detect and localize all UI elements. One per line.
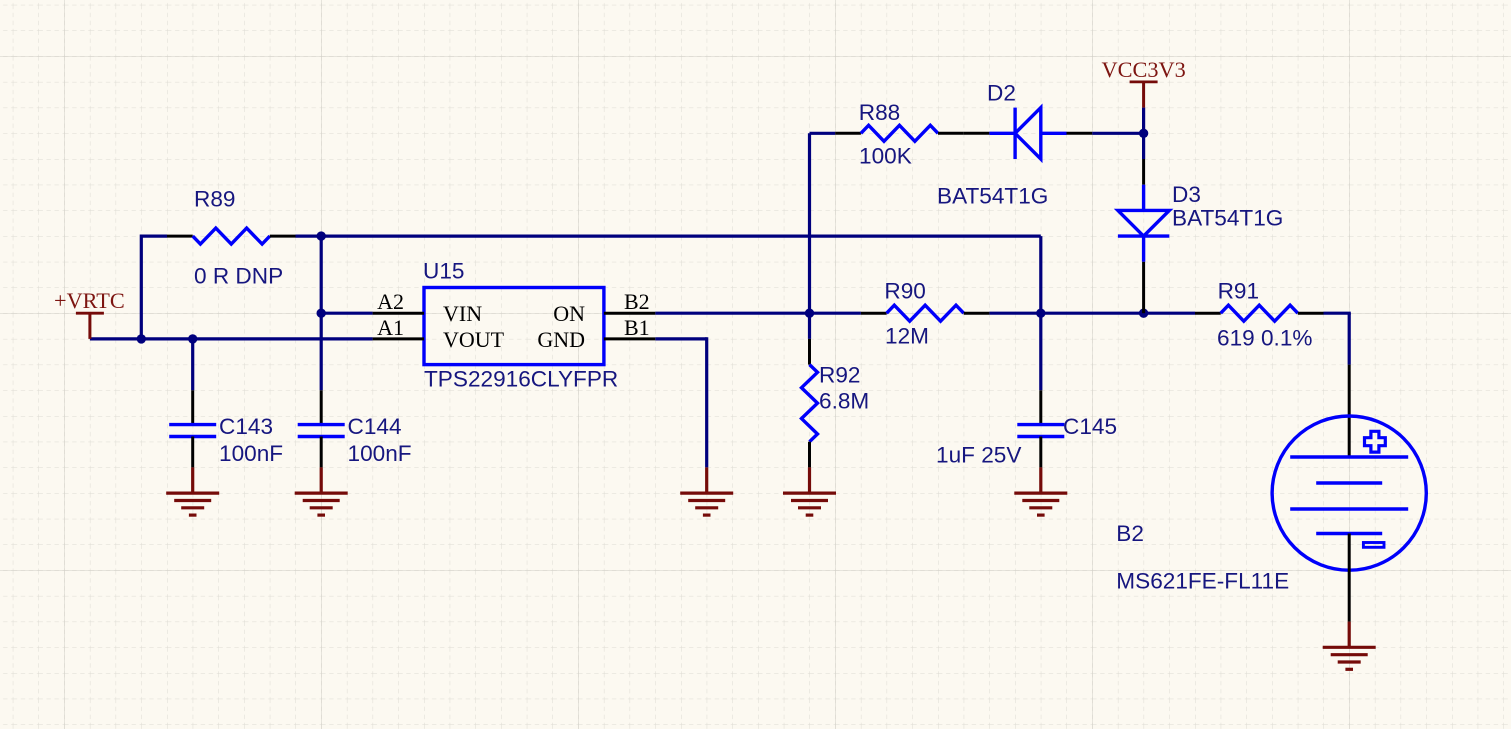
svg-text:VCC3V3: VCC3V3 [1101,57,1185,82]
svg-text:+VRTC: +VRTC [54,288,125,313]
diode D2 [964,108,1092,159]
power port +VRTC [76,313,104,339]
svg-text:R89: R89 [194,186,235,211]
junction A2/col10 [317,309,326,318]
svg-text:TPS22916CLYFPR: TPS22916CLYFPR [424,366,618,391]
svg-text:BAT54T1G: BAT54T1G [937,184,1048,209]
svg-text:VOUT: VOUT [443,327,505,352]
pin A1 (VOUT) [373,337,424,340]
svg-text:100K: 100K [859,144,912,169]
svg-text:R90: R90 [884,278,925,303]
junction R89 right [317,231,326,240]
resistor R90 [861,305,990,321]
wire row7 R89 right to junction [296,235,322,238]
resistor R88 [835,125,964,141]
svg-text:R91: R91 [1218,278,1259,303]
wire B1 out [655,337,706,340]
ground (C145) [1014,467,1067,515]
svg-text:U15: U15 [423,259,464,284]
wire R91 to corner [1324,312,1351,315]
svg-text:B2: B2 [1116,521,1144,546]
pin A2 (VIN) [373,312,424,315]
capacitor C144 [298,390,345,467]
svg-text:A2: A2 [377,289,404,314]
svg-text:D2: D2 [987,80,1016,105]
pin B2 (ON) [604,312,655,315]
wire B1 down to ground [705,337,708,467]
svg-text:D3: D3 [1172,182,1201,207]
svg-text:100nF: 100nF [219,441,283,466]
resistor R89 [167,228,296,244]
svg-text:VIN: VIN [443,301,482,326]
ground (C143) [166,467,219,515]
svg-text:6.8M: 6.8M [819,388,869,413]
capacitor C143 [169,390,216,467]
wire R90 right to R91 [989,312,1195,315]
svg-text:B1: B1 [624,315,650,340]
wire row7 left of R89 [141,235,167,238]
junction R92/col29 [805,309,814,318]
wire col29 vertical R88 to row10 [808,133,811,313]
ground (B1/GND pin) [680,467,733,515]
wire A2 stub [321,312,372,315]
capacitor C145 [1017,390,1064,467]
resistor R91 [1195,305,1324,321]
wire C143 drop [191,339,194,390]
junction D3/R91 [1139,309,1148,318]
svg-text:R88: R88 [859,100,900,125]
diode D3 [1118,159,1169,313]
wire VCC junction down [1142,108,1145,159]
svg-text:12M: 12M [885,324,929,349]
wire R92 feed [808,313,811,339]
wire battery corner down [1348,313,1351,364]
resistor R92 [802,339,818,468]
svg-text:A1: A1 [377,315,404,340]
svg-text:C143: C143 [219,414,273,439]
wire D2 to VCC junction [1092,132,1143,135]
wire C145 drop [1039,313,1042,390]
IC U15 TPS22916CLYFPR box [424,288,604,365]
battery B2 MS621FE [1272,365,1426,622]
ground (C144) [295,467,348,515]
svg-text:GND: GND [537,327,585,352]
junction row11/col3 [137,334,146,343]
svg-text:ON: ON [553,301,585,326]
junction C145/col38 [1036,309,1045,318]
wire col3 vertical [140,235,143,339]
wire row7 long run col10 to col38 [321,235,1041,238]
svg-text:100nF: 100nF [348,441,412,466]
svg-text:1uF 25V: 1uF 25V [936,443,1021,468]
svg-text:0 R DNP: 0 R DNP [194,264,283,289]
wire B2 to R90 [655,312,861,315]
svg-text:B2: B2 [624,289,650,314]
wire col10 vertical [320,235,323,391]
junction C143 tap [188,334,197,343]
svg-text:C145: C145 [1063,414,1117,439]
pin B1 (GND) [604,337,655,340]
wire row11 VRTC to A1 [90,337,373,340]
wire col38 down to row10 [1039,236,1042,313]
wire row3 col29 to R88 [810,132,836,135]
svg-text:BAT54T1G: BAT54T1G [1172,205,1283,230]
svg-text:619 0.1%: 619 0.1% [1217,325,1312,350]
power port VCC3V3 [1130,82,1158,108]
ground (R92) [783,467,836,515]
junction D2/VCC3V3 [1139,129,1148,138]
svg-text:C144: C144 [348,414,402,439]
svg-text:R92: R92 [819,362,860,387]
ground (battery) [1323,622,1376,670]
svg-text:MS621FE-FL11E: MS621FE-FL11E [1116,569,1289,594]
